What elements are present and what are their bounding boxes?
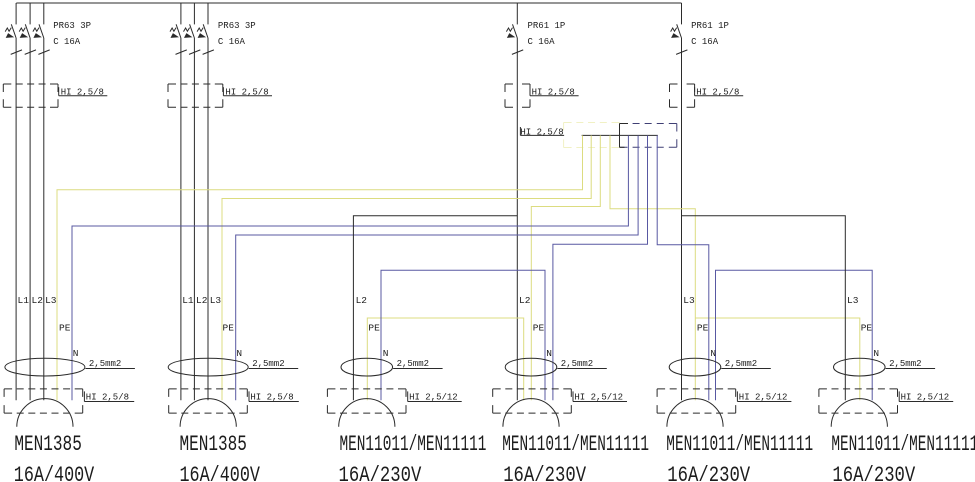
wire PE daisy-chain socket X4 to X3 (yellow): [367, 318, 523, 400]
svg-text:16A/400V: 16A/400V: [180, 463, 261, 482]
svg-text:MEN11011/MEN11111: MEN11011/MEN11111: [340, 432, 487, 457]
breaker Q1 pole 3 actuator slash: [38, 50, 49, 55]
terminal block dashed box under breaker Q4: [670, 84, 695, 107]
breaker Q2 pole 3 actuator slash: [203, 50, 214, 55]
svg-text:N: N: [236, 348, 242, 359]
socket X4 terminal dashed box: [493, 389, 572, 413]
svg-text:MEN1385: MEN1385: [14, 432, 81, 457]
N distribution terminal strip (blue dashed box): [620, 124, 677, 148]
svg-text:N: N: [546, 348, 552, 359]
svg-text:L2: L2: [32, 295, 44, 306]
breaker Q3 pole 1 actuator slash: [512, 50, 523, 55]
terminal block dashed box under breaker Q1: [3, 84, 58, 107]
wire N socket X1 (blue): [72, 135, 628, 400]
svg-text:C 16A: C 16A: [528, 37, 556, 47]
svg-text:PE: PE: [533, 323, 545, 334]
socket X1 wire-bundle ellipse: [5, 358, 85, 376]
svg-text:C 16A: C 16A: [53, 37, 81, 47]
svg-text:PE: PE: [861, 323, 873, 334]
wire phase line pole 1 of breaker Q1 (upper segment): [15, 3, 17, 24]
socket X4 body arc: [503, 399, 559, 427]
socket X2 wire-bundle ellipse: [168, 358, 248, 376]
svg-text:N: N: [873, 348, 879, 359]
breaker Q1 pole 1 contact symbol: [11, 24, 16, 38]
wire phase line pole 2 of breaker Q2 (upper segment): [193, 3, 195, 24]
svg-text:2,5mm2: 2,5mm2: [89, 359, 121, 369]
wire phase line pole 1 of breaker Q2 (upper segment): [180, 3, 182, 24]
terminal block dashed box under breaker Q2: [168, 84, 223, 107]
svg-text:16A/230V: 16A/230V: [667, 463, 750, 482]
socket X3 wire-bundle ellipse: [341, 358, 393, 376]
wire N socket X2 (blue): [236, 135, 638, 400]
breaker Q2 pole 2 contact symbol: [190, 24, 195, 38]
wire phase line pole 1 of breaker Q4 (lower segment to socket): [681, 38, 683, 400]
svg-text:16A/230V: 16A/230V: [832, 463, 915, 482]
wire phase line pole 2 of breaker Q2 (lower segment to socket): [193, 38, 195, 400]
breaker Q2 pole 3 contact symbol: [203, 24, 208, 38]
wire PE socket X5 (yellow): [610, 135, 695, 400]
wire phase line pole 3 of breaker Q2 (upper segment): [207, 3, 209, 24]
wire phase line pole 2 of breaker Q1 (lower segment to socket): [29, 38, 31, 400]
breaker Q1 pole 1 actuator slash: [11, 50, 22, 55]
svg-text:L3: L3: [847, 295, 859, 306]
socket X6 body arc: [831, 399, 887, 427]
socket X3 body arc: [339, 399, 395, 427]
svg-text:C 16A: C 16A: [218, 37, 246, 47]
svg-text:L2: L2: [196, 295, 208, 306]
socket X5 body arc: [667, 399, 723, 427]
wire phase line pole 1 of breaker Q4 (upper segment): [681, 3, 683, 24]
svg-text:2,5mm2: 2,5mm2: [889, 359, 921, 369]
svg-text:PR63 3P: PR63 3P: [53, 21, 91, 31]
socket X5 terminal dashed box: [657, 389, 736, 413]
svg-text:PR61 1P: PR61 1P: [691, 21, 729, 31]
svg-text:L2: L2: [519, 295, 531, 306]
svg-text:MEN11011/MEN11111: MEN11011/MEN11111: [831, 432, 975, 457]
socket X2 body arc: [180, 399, 236, 427]
breaker Q1 pole 2 actuator slash: [25, 50, 36, 55]
wire phase line pole 3 of breaker Q1 (lower segment to socket): [43, 38, 45, 400]
breaker Q2 pole 1 contact symbol: [176, 24, 181, 38]
socket X3 terminal dashed box: [327, 389, 406, 413]
wire phase line pole 1 of breaker Q2 (lower segment to socket): [180, 38, 182, 400]
svg-text:L3: L3: [683, 295, 695, 306]
svg-text:L3: L3: [210, 295, 222, 306]
wire phase line pole 3 of breaker Q2 (lower segment to socket): [207, 38, 209, 400]
svg-text:HI 2,5/8: HI 2,5/8: [520, 128, 563, 138]
svg-text:2,5mm2: 2,5mm2: [397, 359, 429, 369]
socket X1 terminal dashed box: [4, 389, 83, 413]
svg-text:L2: L2: [356, 295, 368, 306]
svg-text:2,5mm2: 2,5mm2: [252, 359, 284, 369]
svg-text:16A/400V: 16A/400V: [14, 463, 95, 482]
wire phase L3 branch from breaker Q4 to socket X6: [682, 216, 846, 401]
wire phase L2 branch from breaker Q3 to socket X3: [353, 216, 517, 401]
svg-text:N: N: [73, 348, 79, 359]
socket X1 body arc: [17, 399, 73, 427]
svg-text:N: N: [710, 348, 716, 359]
svg-text:16A/230V: 16A/230V: [503, 463, 586, 482]
wire phase line pole 1 of breaker Q3 (lower segment to socket): [516, 38, 518, 400]
breaker Q2 pole 2 actuator slash: [189, 50, 200, 55]
wire PE socket X1 (yellow): [57, 135, 583, 400]
socket X4 wire-bundle ellipse: [505, 358, 557, 376]
terminal bus bar inside PE/N strips: [582, 134, 658, 136]
PE distribution terminal strip (yellow dashed box): [564, 123, 620, 148]
svg-text:2,5mm2: 2,5mm2: [561, 359, 593, 369]
breaker Q2 pole 1 actuator slash: [176, 50, 187, 55]
wire phase line pole 2 of breaker Q1 (upper segment): [29, 3, 31, 24]
socket X2 terminal dashed box: [169, 389, 248, 413]
breaker Q1 pole 2 contact symbol: [25, 24, 30, 38]
wire PE socket X2 (yellow): [222, 135, 591, 400]
svg-text:16A/230V: 16A/230V: [339, 463, 422, 482]
wire N daisy-chain socket X4 to X3 (blue): [381, 270, 545, 400]
svg-text:PR63 3P: PR63 3P: [218, 21, 256, 31]
wire N daisy-chain socket X5 to X6 (blue): [716, 270, 873, 400]
svg-text:PE: PE: [697, 323, 709, 334]
breaker Q4 pole 1 contact symbol: [677, 24, 682, 38]
terminal block dashed box under breaker Q3: [505, 84, 530, 107]
N strip solid corner marks: [619, 124, 621, 148]
breaker Q1 pole 3 contact symbol: [39, 24, 44, 38]
wire N socket X5 (blue): [657, 135, 709, 400]
svg-text:MEN11011/MEN11111: MEN11011/MEN11111: [502, 432, 649, 457]
wire N socket X4 (blue): [553, 135, 648, 400]
svg-text:L1: L1: [18, 295, 30, 306]
svg-text:PE: PE: [59, 323, 71, 334]
socket X5 wire-bundle ellipse: [669, 358, 721, 376]
socket X6 terminal dashed box: [819, 389, 898, 413]
socket X6 wire-bundle ellipse: [834, 358, 886, 376]
svg-text:L3: L3: [45, 295, 57, 306]
wire PE socket X4 (yellow): [531, 135, 600, 400]
breaker Q4 pole 1 actuator slash: [676, 50, 687, 55]
wire phase line pole 3 of breaker Q1 (upper segment): [43, 3, 45, 24]
svg-text:L1: L1: [182, 295, 194, 306]
wire phase line pole 1 of breaker Q3 (upper segment): [516, 3, 518, 24]
svg-text:N: N: [383, 348, 389, 359]
top supply bus wire: [16, 2, 681, 4]
breaker Q3 pole 1 contact symbol: [513, 24, 518, 38]
svg-text:PR61 1P: PR61 1P: [528, 21, 566, 31]
wire PE daisy-chain socket X5 to X6 (yellow): [695, 318, 860, 400]
svg-text:PE: PE: [223, 323, 235, 334]
svg-text:2,5mm2: 2,5mm2: [725, 359, 757, 369]
wire phase line pole 1 of breaker Q1 (lower segment to socket): [15, 38, 17, 400]
svg-text:PE: PE: [368, 323, 380, 334]
svg-text:MEN1385: MEN1385: [180, 432, 247, 457]
svg-text:MEN11011/MEN11111: MEN11011/MEN11111: [666, 432, 813, 457]
svg-text:C 16A: C 16A: [691, 37, 719, 47]
